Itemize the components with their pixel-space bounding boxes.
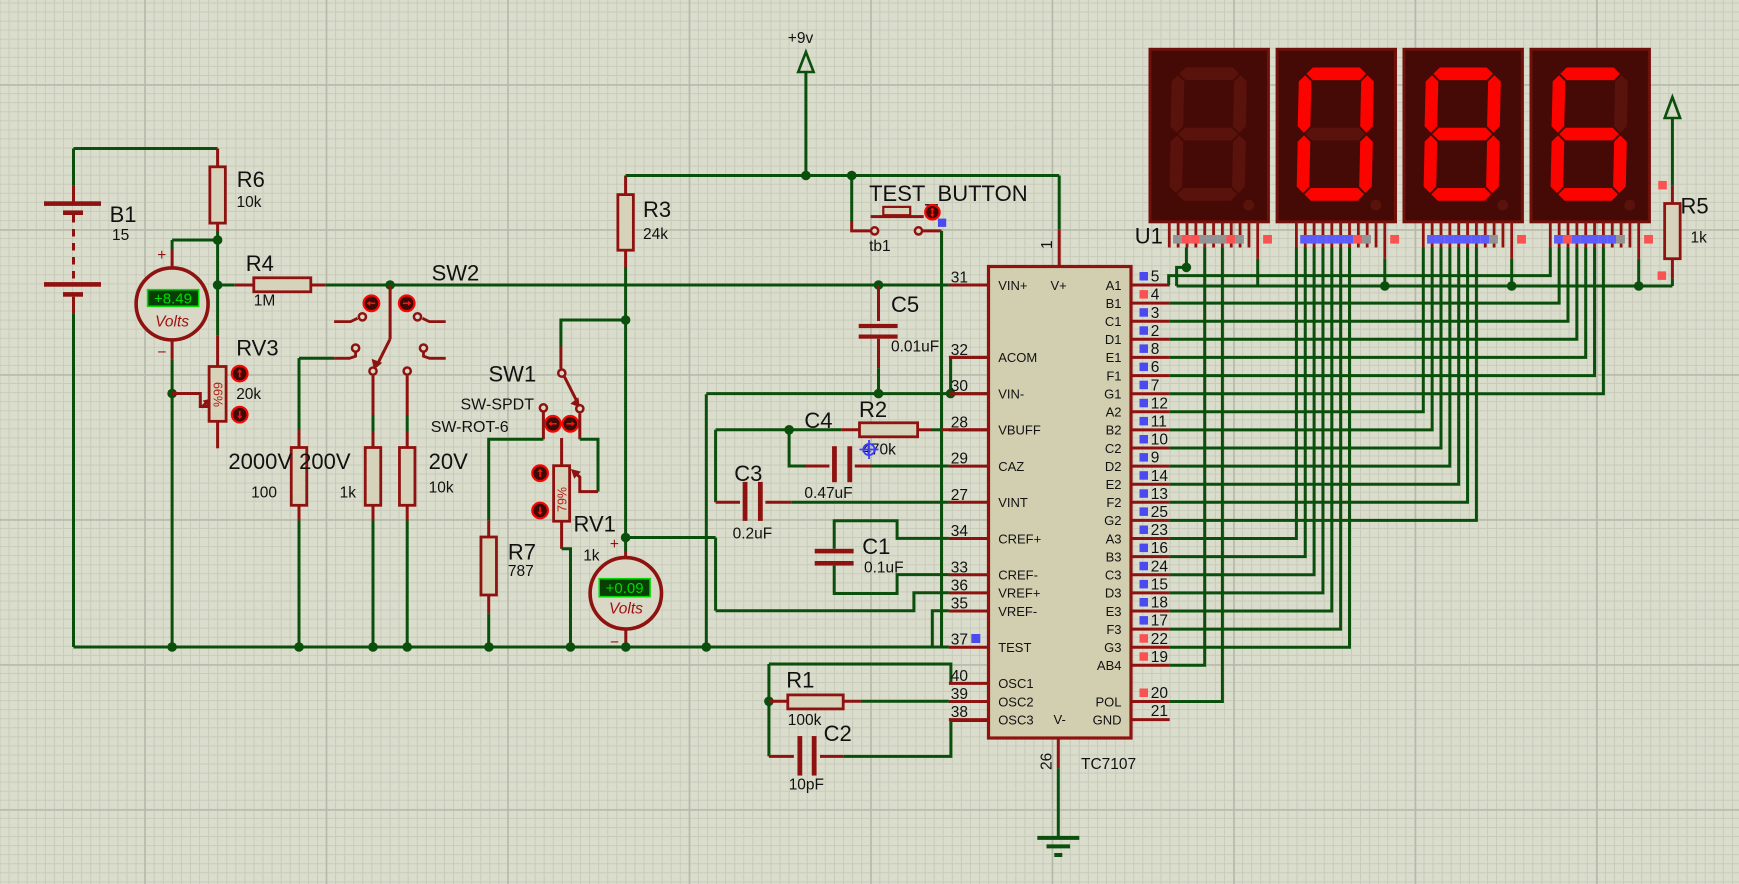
svg-text:20: 20: [1151, 685, 1169, 702]
svg-text:C1: C1: [1105, 314, 1122, 329]
svg-text:7: 7: [1151, 377, 1160, 394]
svg-text:TEST: TEST: [998, 640, 1031, 655]
svg-text:100k: 100k: [788, 712, 822, 729]
svg-text:+0.09: +0.09: [606, 580, 644, 597]
svg-text:OSC1: OSC1: [998, 676, 1033, 691]
svg-text:+8.49: +8.49: [154, 291, 192, 308]
svg-text:1M: 1M: [254, 293, 276, 310]
svg-text:200V: 200V: [299, 449, 351, 474]
svg-text:30: 30: [951, 378, 969, 395]
svg-text:D3: D3: [1105, 586, 1122, 601]
svg-text:21: 21: [1151, 703, 1168, 720]
svg-text:CREF+: CREF+: [998, 531, 1041, 546]
svg-text:6: 6: [1151, 359, 1160, 376]
svg-text:E1: E1: [1106, 350, 1122, 365]
svg-text:+: +: [610, 536, 619, 553]
svg-text:40: 40: [951, 668, 969, 685]
svg-text:0.01uF: 0.01uF: [891, 338, 939, 355]
svg-text:24: 24: [1151, 558, 1169, 575]
svg-text:R5: R5: [1681, 193, 1709, 218]
svg-text:OSC3: OSC3: [998, 712, 1033, 727]
svg-text:OSC2: OSC2: [998, 694, 1033, 709]
svg-text:2000V: 2000V: [228, 449, 292, 474]
svg-text:SW-ROT-6: SW-ROT-6: [431, 419, 509, 436]
svg-text:C4: C4: [804, 408, 832, 433]
svg-text:26: 26: [1039, 753, 1056, 770]
svg-text:+: +: [157, 247, 166, 264]
svg-text:79%: 79%: [556, 487, 570, 512]
svg-text:36: 36: [951, 577, 968, 594]
svg-text:VINT: VINT: [998, 495, 1028, 510]
svg-text:16: 16: [1151, 540, 1168, 557]
svg-text:3: 3: [1151, 305, 1160, 322]
svg-text:E3: E3: [1106, 604, 1122, 619]
svg-text:38: 38: [951, 704, 968, 721]
svg-text:35: 35: [951, 596, 968, 613]
svg-text:V-: V-: [1054, 712, 1066, 727]
svg-text:F1: F1: [1106, 368, 1121, 383]
svg-text:G1: G1: [1104, 387, 1121, 402]
svg-text:10pF: 10pF: [789, 776, 824, 793]
svg-text:E2: E2: [1106, 477, 1122, 492]
svg-text:1: 1: [1039, 240, 1056, 249]
svg-text:R7: R7: [508, 540, 536, 565]
svg-text:24k: 24k: [643, 226, 668, 243]
svg-text:28: 28: [951, 414, 968, 431]
svg-text:R6: R6: [237, 167, 265, 192]
svg-text:AB4: AB4: [1097, 658, 1122, 673]
svg-text:R2: R2: [859, 397, 887, 422]
svg-text:V+: V+: [1051, 278, 1067, 293]
svg-text:8: 8: [1151, 341, 1160, 358]
svg-text:20k: 20k: [236, 386, 261, 403]
svg-text:B2: B2: [1106, 423, 1122, 438]
svg-text:RV1: RV1: [574, 511, 616, 536]
svg-text:GND: GND: [1093, 712, 1122, 727]
svg-text:27: 27: [951, 487, 968, 504]
svg-text:1k: 1k: [1691, 229, 1708, 246]
svg-text:17: 17: [1151, 613, 1168, 630]
svg-text:F3: F3: [1106, 622, 1121, 637]
svg-text:D2: D2: [1105, 459, 1122, 474]
svg-text:C2: C2: [824, 721, 852, 746]
svg-text:29: 29: [951, 451, 968, 468]
svg-text:B1: B1: [1106, 296, 1122, 311]
svg-text:15: 15: [1151, 577, 1168, 594]
svg-text:0.47uF: 0.47uF: [804, 485, 852, 502]
svg-text:U1: U1: [1135, 224, 1163, 249]
svg-text:SW1: SW1: [489, 361, 537, 386]
svg-text:A2: A2: [1106, 405, 1122, 420]
svg-text:1k: 1k: [340, 485, 357, 502]
svg-text:20V: 20V: [429, 449, 468, 474]
svg-text:R3: R3: [643, 197, 671, 222]
svg-text:Volts: Volts: [155, 314, 189, 331]
svg-text:POL: POL: [1095, 694, 1121, 709]
svg-text:22: 22: [1151, 631, 1168, 648]
svg-text:%99: %99: [212, 382, 226, 407]
svg-text:ACOM: ACOM: [998, 350, 1037, 365]
svg-text:VREF-: VREF-: [998, 604, 1037, 619]
svg-text:SW2: SW2: [432, 261, 480, 286]
svg-text:G2: G2: [1104, 513, 1121, 528]
svg-text:CAZ: CAZ: [998, 459, 1024, 474]
svg-text:32: 32: [951, 342, 968, 359]
svg-text:C3: C3: [1105, 568, 1122, 583]
svg-text:37: 37: [951, 632, 968, 649]
svg-text:23: 23: [1151, 522, 1168, 539]
svg-text:0.2uF: 0.2uF: [733, 526, 773, 543]
svg-text:A3: A3: [1106, 531, 1122, 546]
svg-text:18: 18: [1151, 595, 1168, 612]
svg-text:31: 31: [951, 270, 968, 287]
svg-text:2: 2: [1151, 323, 1160, 340]
svg-text:C3: C3: [734, 461, 762, 486]
svg-text:39: 39: [951, 686, 968, 703]
svg-text:TC7107: TC7107: [1081, 756, 1136, 773]
svg-text:C5: C5: [891, 292, 919, 317]
svg-text:D1: D1: [1105, 332, 1122, 347]
svg-text:33: 33: [951, 559, 968, 576]
svg-text:G3: G3: [1104, 640, 1121, 655]
svg-text:R4: R4: [246, 251, 274, 276]
svg-text:VBUFF: VBUFF: [998, 423, 1041, 438]
svg-text:Volts: Volts: [609, 600, 643, 617]
svg-text:B3: B3: [1106, 549, 1122, 564]
svg-text:34: 34: [951, 523, 969, 540]
svg-text:100: 100: [251, 485, 277, 502]
svg-text:25: 25: [1151, 504, 1168, 521]
svg-text:13: 13: [1151, 486, 1168, 503]
svg-text:C1: C1: [862, 534, 890, 559]
svg-text:A1: A1: [1106, 278, 1122, 293]
svg-text:tb1: tb1: [869, 238, 891, 255]
svg-text:TEST_BUTTON: TEST_BUTTON: [869, 181, 1028, 206]
svg-text:14: 14: [1151, 468, 1169, 485]
svg-text:12: 12: [1151, 395, 1168, 412]
svg-text:9: 9: [1151, 450, 1160, 467]
svg-text:15: 15: [112, 227, 129, 244]
svg-text:B1: B1: [110, 202, 137, 227]
svg-text:11: 11: [1151, 414, 1167, 431]
svg-text:VIN+: VIN+: [998, 278, 1027, 293]
svg-text:VREF+: VREF+: [998, 586, 1040, 601]
svg-text:VIN-: VIN-: [998, 387, 1024, 402]
svg-text:RV3: RV3: [236, 335, 278, 360]
svg-text:787: 787: [508, 563, 534, 580]
svg-text:5: 5: [1151, 269, 1160, 286]
svg-text:C2: C2: [1105, 441, 1122, 456]
svg-text:1k: 1k: [583, 548, 600, 565]
svg-text:−: −: [157, 344, 166, 361]
svg-text:10: 10: [1151, 432, 1169, 449]
svg-text:SW-SPDT: SW-SPDT: [461, 397, 535, 414]
svg-text:F2: F2: [1106, 495, 1121, 510]
svg-text:4: 4: [1151, 287, 1160, 304]
svg-text:R1: R1: [786, 668, 814, 693]
svg-text:19: 19: [1151, 649, 1168, 666]
svg-text:10k: 10k: [429, 480, 454, 497]
svg-text:+9v: +9v: [788, 30, 814, 47]
svg-text:10k: 10k: [237, 194, 262, 211]
svg-text:CREF-: CREF-: [998, 568, 1038, 583]
